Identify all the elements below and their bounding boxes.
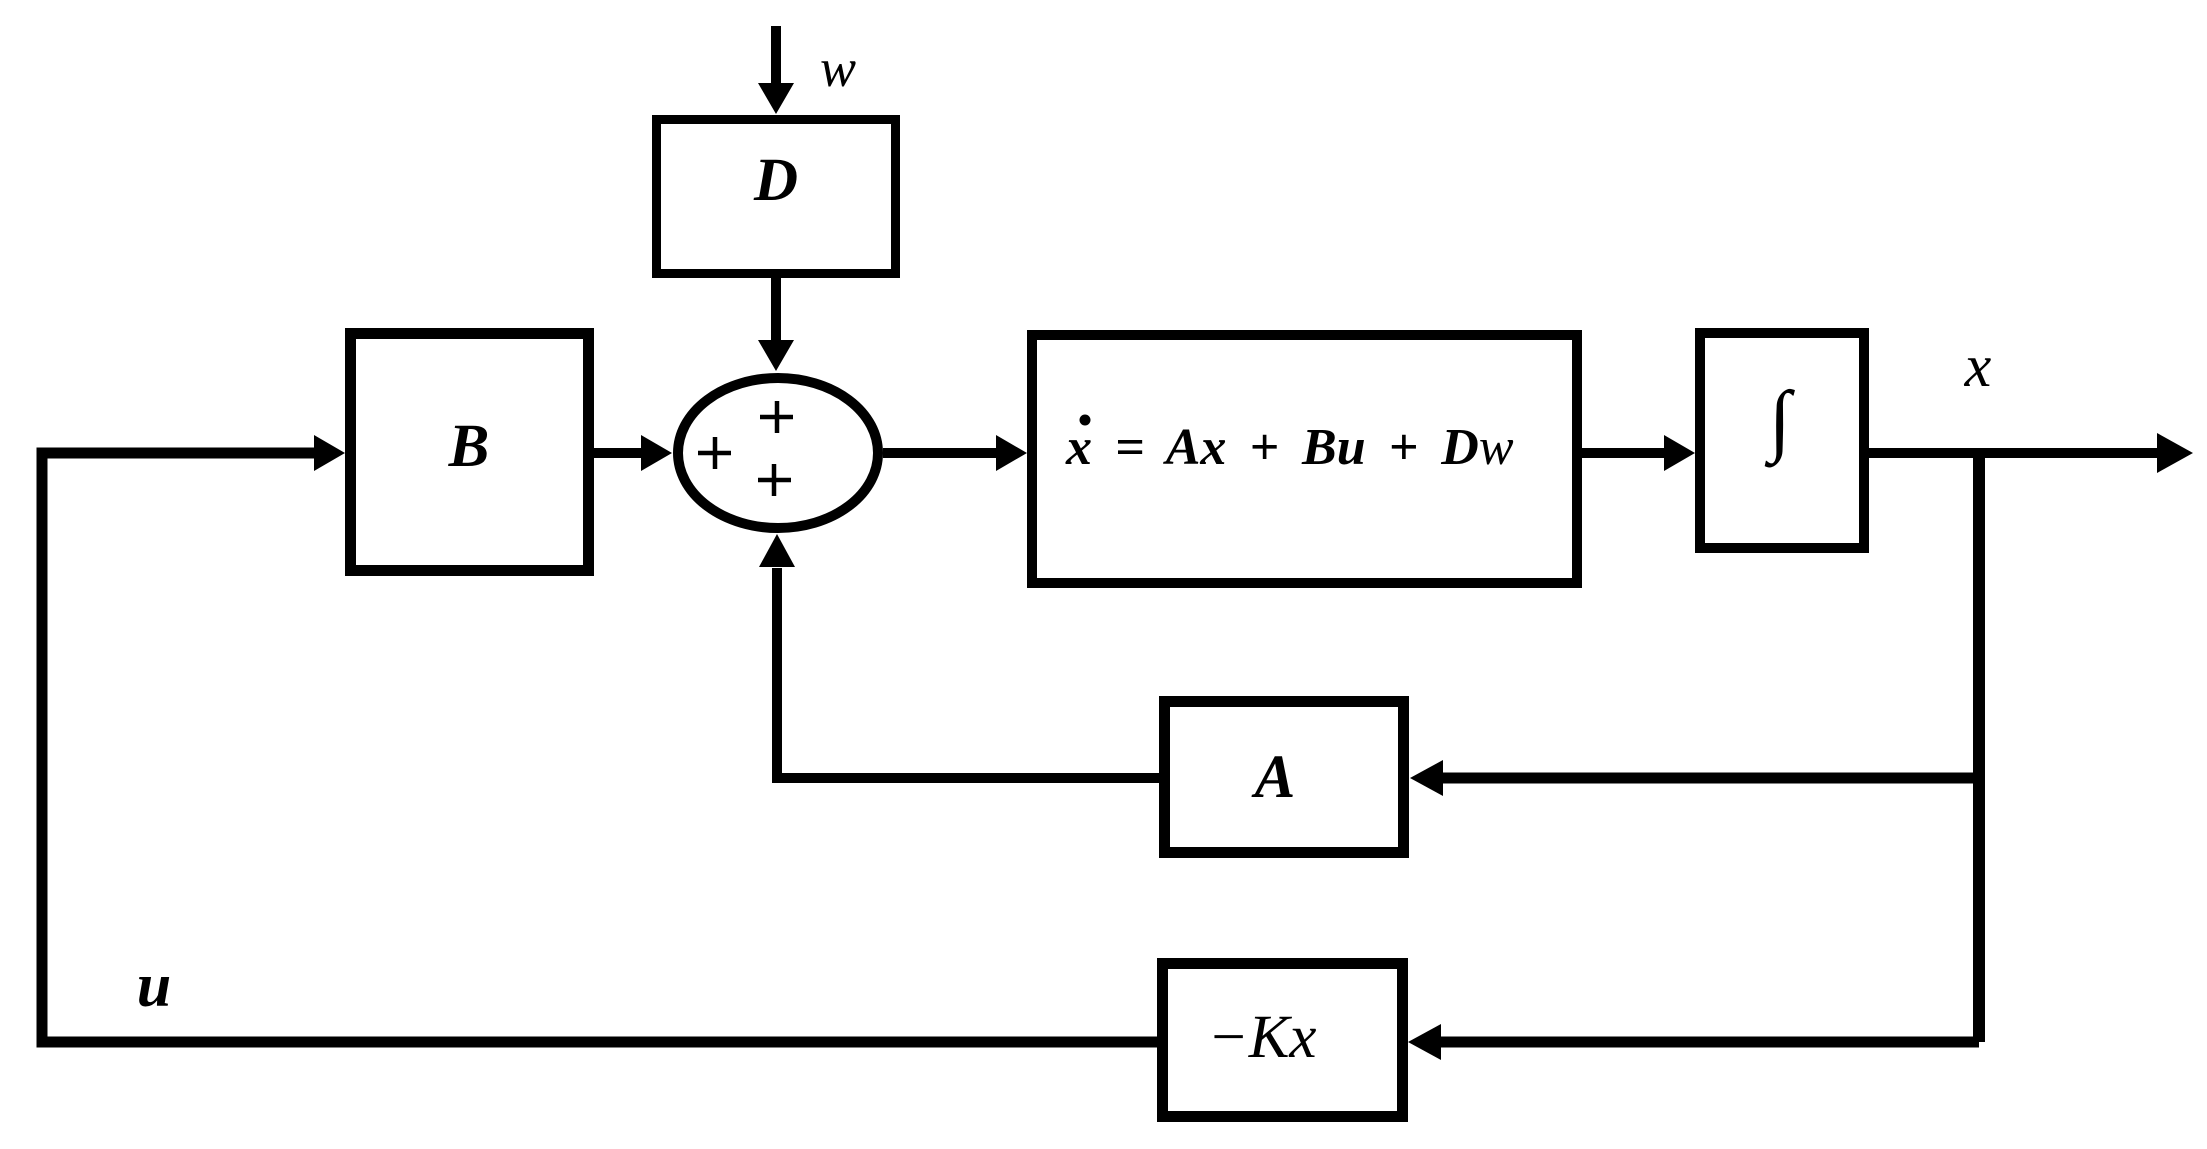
svg-text:A: A <box>1251 744 1296 811</box>
svg-text:B: B <box>448 413 490 480</box>
svg-text:D: D <box>753 147 798 214</box>
svg-text:−Kx: −Kx <box>1208 1004 1317 1071</box>
svg-text:w: w <box>820 38 856 98</box>
svg-text:x: x <box>1964 333 1992 399</box>
svg-text:x = Ax + Bu + Dw: x = Ax + Bu + Dw <box>1065 419 1514 476</box>
svg-text:u: u <box>137 952 171 1020</box>
